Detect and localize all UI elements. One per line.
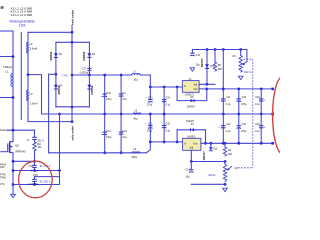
svg-text:620: 620	[228, 153, 233, 156]
wire R6 branch	[214, 50, 216, 63]
node dot bus lower diodes	[71, 106, 74, 109]
svg-text:1:8:8: 1:8:8	[18, 23, 25, 27]
capacitor C33 branch	[238, 114, 240, 143]
capacitor C15	[32, 165, 37, 167]
node dot primary tap 1	[12, 55, 15, 58]
capacitor C11 plates	[221, 99, 226, 101]
cut-off text top-left corner	[1, 6, 4, 9]
node dot rail D10	[206, 48, 209, 51]
wire snubber to source tap	[34, 151, 36, 162]
node dot C34 top	[163, 86, 166, 89]
capacitor C2 branch	[120, 75, 122, 114]
svg-text:FT40: FT40	[0, 176, 6, 179]
wire snubber mid	[34, 140, 36, 142]
diode D7	[191, 128, 195, 131]
node dot C36 bottom	[260, 142, 263, 145]
svg-text:1N5819: 1N5819	[49, 51, 53, 61]
inductor L6	[132, 152, 140, 153]
svg-text:1N4007: 1N4007	[187, 106, 196, 109]
svg-text:IRFP540: IRFP540	[15, 149, 26, 153]
svg-text:Adj: Adj	[190, 147, 194, 150]
wire primary top stub	[0, 30, 13, 32]
diode D1	[87, 53, 91, 57]
wire 7.4V bus	[72, 74, 132, 76]
node dot C30 top	[260, 88, 263, 91]
node dot C43 top	[103, 74, 106, 77]
svg-text:CP1: CP1	[148, 97, 153, 100]
node dot C2 bottom	[120, 113, 123, 116]
svg-text:270µ: 270µ	[241, 103, 247, 106]
node dot source tap upper	[12, 160, 15, 163]
potentiometer R2	[223, 162, 232, 182]
svg-text:10k lin: 10k lin	[244, 70, 252, 74]
svg-text:-Out: -Out	[193, 143, 198, 146]
svg-text:470µ: 470µ	[106, 136, 112, 139]
wire D5 loop	[177, 87, 207, 101]
capacitor C10 branch	[191, 50, 193, 53]
svg-text:1N5819: 1N5819	[90, 85, 94, 95]
wire top rail	[192, 49, 247, 51]
wire LM337 adj down	[190, 150, 192, 161]
svg-text:10k lin: 10k lin	[208, 173, 216, 177]
svg-text:Drain: Drain	[0, 128, 7, 132]
svg-text:C10: C10	[196, 54, 201, 57]
terminal square positive out	[271, 88, 274, 91]
wire C16 top stub	[34, 177, 36, 179]
ground symbol C10	[190, 68, 195, 71]
wire rectifier header	[56, 41, 90, 43]
svg-text:470µ: 470µ	[106, 98, 112, 101]
node dot rail R6	[214, 48, 217, 51]
node dot CP1 top	[149, 86, 152, 89]
wire out bus negative	[201, 142, 273, 144]
node dot C32 rail	[149, 113, 152, 116]
node dot C43 bottom	[103, 113, 106, 116]
annotation red ellipse snubber caps	[19, 161, 53, 198]
node dot out bus D7	[204, 142, 207, 145]
wire bottom left rail	[13, 184, 60, 186]
wire primary tap stub 1	[0, 56, 13, 58]
svg-text:FT4: FT4	[0, 183, 5, 186]
svg-text:C13: C13	[106, 130, 111, 133]
ground symbol R2	[223, 188, 228, 191]
svg-text:C36: C36	[255, 123, 260, 126]
wire rectifier left branch	[55, 42, 57, 107]
mechanical link dashed vertical	[252, 59, 254, 168]
svg-text:LM317L: LM317L	[185, 92, 195, 96]
wire C15 stub	[34, 161, 36, 165]
resistor R9 snubber	[33, 142, 36, 151]
inductor L2	[27, 42, 28, 53]
svg-text:C27: C27	[82, 68, 87, 71]
wire C15 bottom stub	[34, 168, 36, 171]
svg-text:0.1µ: 0.1µ	[165, 130, 170, 133]
wire ground mid rail	[42, 113, 273, 115]
capacitor C33 plates	[237, 126, 242, 129]
wire out bus positive	[199, 88, 273, 90]
capacitor C2 plates	[119, 94, 124, 96]
svg-text:1N4007: 1N4007	[200, 58, 204, 68]
diode D3	[87, 85, 91, 89]
svg-text:292 V: 292 V	[37, 139, 44, 143]
capacitor C19 branch	[120, 114, 122, 153]
capacitor C32 plates	[148, 126, 153, 129]
svg-text:1.9mH: 1.9mH	[30, 102, 38, 106]
capacitor C29 plates	[237, 99, 242, 102]
capacitor C30 branch	[260, 89, 262, 114]
capacitor C14 plates	[189, 170, 194, 173]
wire LM337 in bus	[150, 141, 182, 143]
node dot C12 bottom	[222, 142, 225, 145]
capacitor C12 branch	[222, 114, 224, 143]
svg-text:0.1µ: 0.1µ	[122, 98, 127, 101]
zener diode D12 branch	[210, 143, 212, 146]
resistor R4 branch	[224, 143, 226, 147]
svg-text:Out: Out	[194, 88, 198, 91]
wire D10 branch	[206, 50, 208, 85]
svg-text:10µ: 10µ	[133, 78, 138, 81]
wire secondary top	[28, 31, 72, 33]
node dot primary tap 2	[12, 96, 15, 99]
node dot C15 bottom	[33, 169, 36, 172]
node dot secondary bottom at bus	[71, 120, 74, 123]
resistor R4	[223, 147, 226, 156]
capacitor C43 branch	[104, 75, 106, 114]
svg-text:40µ: 40µ	[133, 118, 138, 121]
svg-text:0.1µ: 0.1µ	[226, 103, 231, 106]
svg-text:500µ: 500µ	[132, 156, 138, 159]
svg-text:270µ: 270µ	[241, 130, 247, 133]
svg-text:0.1µ: 0.1µ	[122, 136, 127, 139]
capacitor C36 branch	[260, 114, 262, 143]
capacitor CP1 plates	[148, 100, 153, 103]
node dot C35 top	[163, 141, 166, 144]
wire snubber branch top	[34, 130, 36, 137]
node dot left mid	[55, 73, 58, 76]
wire rectifier right branch	[88, 42, 90, 107]
annotation red ellipse output	[273, 77, 293, 154]
svg-text:f2: 292 V: f2: 292 V	[40, 179, 51, 183]
node dot source tap lower left	[12, 169, 15, 172]
capacitor snubber 1n	[32, 137, 37, 139]
svg-text:1N4007: 1N4007	[202, 151, 206, 161]
node dot adj D10	[205, 83, 208, 86]
node dot bus header	[71, 41, 74, 44]
capacitor C13 branch	[104, 114, 106, 153]
capacitor C34 branch	[163, 87, 165, 114]
mechanical link dashed top	[244, 58, 253, 60]
node dot D7 loop bottom	[176, 141, 179, 144]
svg-text:0.1µ: 0.1µ	[165, 104, 170, 107]
node dot snubber C15 top	[33, 160, 36, 163]
svg-text:C14: C14	[185, 168, 190, 171]
ground symbol mosfet	[11, 194, 16, 197]
potentiometer R1	[239, 50, 247, 73]
node dot snubber bottom	[33, 183, 36, 186]
terminal square negative out	[271, 142, 274, 145]
node dot C11 top	[222, 88, 225, 91]
wire minus raw drop	[48, 74, 50, 153]
wire D7 loop	[177, 130, 205, 144]
capacitor CP1 branch	[149, 87, 151, 99]
wire L7 to LM317 input	[140, 75, 182, 87]
capacitor C35 plates	[162, 126, 167, 128]
node dot out bus D5	[205, 88, 208, 91]
capacitor C43 plates	[102, 94, 107, 97]
svg-text:sek.seite: sek.seite	[71, 125, 75, 140]
capacitor C30 plates	[259, 99, 264, 101]
node dot C32 top	[149, 141, 152, 144]
wire Adj stub	[199, 83, 215, 85]
svg-text:10µ: 10µ	[185, 175, 190, 178]
svg-text:C35: C35	[165, 123, 170, 126]
wire mosfet source down	[12, 153, 14, 195]
node dot rail link	[222, 48, 225, 51]
wire ground drop column	[59, 114, 61, 185]
wire secondary bottom	[28, 121, 72, 123]
wire primary vertical	[12, 31, 14, 142]
node dot ground rail junction	[58, 113, 61, 116]
capacitor C10 plates	[190, 53, 195, 56]
wire link top rail to out bus	[222, 50, 224, 89]
capacitor C14 branch	[190, 162, 192, 170]
svg-text:C15: C15	[29, 164, 34, 168]
node dot tap lower right	[58, 169, 61, 172]
node dot bus 7.4V	[71, 74, 74, 77]
svg-text:0.1µ: 0.1µ	[226, 130, 231, 133]
node dot rail pot	[239, 48, 242, 51]
svg-text:10µ: 10µ	[196, 64, 201, 67]
wire primary tap stub 2	[0, 97, 13, 99]
diode D10	[205, 64, 209, 68]
svg-text:0.1µ: 0.1µ	[255, 130, 260, 133]
op-amp U1 LM317 box	[182, 81, 199, 93]
capacitor C35 branch	[163, 114, 165, 142]
svg-text:620: 620	[218, 68, 223, 71]
op-amp U2 LM337 box	[183, 138, 201, 150]
node dot C11 bottom	[222, 113, 225, 116]
inductor L1	[11, 74, 13, 87]
svg-text:C32: C32	[148, 123, 153, 126]
capacitor C13 plates	[102, 132, 107, 135]
node dot C19 bottom	[120, 151, 123, 154]
svg-text:C43: C43	[106, 92, 111, 95]
svg-text:C19: C19	[122, 130, 127, 133]
node dot C33 bottom	[237, 142, 240, 145]
diode D4	[54, 85, 58, 89]
wire adj rail	[191, 161, 225, 163]
wire center tap	[28, 75, 42, 114]
transistor M2	[1, 142, 13, 155]
svg-text:270µ: 270µ	[147, 104, 153, 107]
svg-text:C12: C12	[226, 123, 231, 126]
resistor R6	[213, 62, 216, 71]
svg-text:270µ: 270µ	[147, 130, 153, 133]
diode D5	[191, 99, 195, 102]
svg-text:0.0033µ: 0.0033µ	[80, 71, 89, 74]
node dot bus L2	[71, 31, 74, 34]
node dot C29 top	[237, 88, 240, 91]
svg-text:1N5819: 1N5819	[82, 51, 86, 61]
svg-text:K3 L2 L3 0.998: K3 L2 L3 0.998	[11, 13, 33, 17]
svg-text:D12: D12	[213, 148, 218, 151]
node dot right branch at 7.4V bus	[88, 74, 91, 77]
svg-text:0.1µ: 0.1µ	[255, 103, 260, 106]
svg-text:P40: P40	[0, 166, 5, 169]
svg-text:C34: C34	[165, 97, 170, 100]
svg-text:C29: C29	[242, 96, 247, 99]
svg-text:7.4V: 7.4V	[62, 73, 68, 77]
svg-text:M2: M2	[15, 144, 19, 148]
wire lower diode link	[56, 106, 90, 108]
wire C14 bottom to pot	[191, 183, 225, 185]
node dot source rail	[12, 183, 15, 186]
wire source tap upper	[13, 160, 35, 162]
capacitor C27 plates	[87, 68, 91, 70]
capacitor C19 plates	[119, 132, 124, 134]
wire bottom filter rail	[49, 142, 151, 153]
capacitor C32 branch	[149, 114, 151, 142]
node dot C35 rail	[163, 113, 166, 116]
inductor L3	[27, 90, 28, 101]
wire C16 top rail	[35, 176, 60, 178]
inductor L5	[133, 113, 141, 114]
terminal square ground out	[271, 113, 274, 116]
node dot C29 bottom	[237, 113, 240, 116]
wire secondary vertical	[27, 32, 29, 121]
node dot adj node	[190, 160, 193, 163]
node dot D5 loop top	[176, 86, 179, 89]
capacitor C34 plates	[162, 100, 167, 102]
capacitor C11 branch	[222, 89, 224, 114]
zener diode D12	[209, 147, 213, 151]
svg-text:0.08mH: 0.08mH	[3, 65, 12, 69]
wire vertical bus	[71, 26, 73, 122]
svg-text:C11: C11	[226, 96, 231, 99]
svg-text:sek.seite: sek.seite	[70, 9, 74, 25]
node dot C2 top	[120, 74, 123, 77]
node dot rail zener	[209, 142, 212, 145]
capacitor C16	[32, 179, 37, 181]
node dot C30 bottom	[260, 113, 263, 116]
node dot center tap	[27, 73, 30, 76]
wire source tap lower	[13, 170, 60, 172]
wire C16 bottom	[34, 182, 36, 185]
inductor L7	[132, 74, 141, 75]
node dot pot top	[224, 160, 227, 163]
transformer core	[20, 33, 22, 120]
capacitor C29 branch	[238, 89, 240, 114]
svg-text:Adj: Adj	[194, 84, 198, 87]
node dot C13 bottom	[103, 151, 106, 154]
svg-text:1.9mH: 1.9mH	[30, 47, 38, 51]
node dot rail R4	[224, 142, 227, 145]
svg-text:C33: C33	[242, 123, 247, 126]
diode D2	[54, 53, 58, 57]
ground symbol R1	[238, 76, 243, 79]
svg-text:C30: C30	[255, 96, 260, 99]
mechanical link dashed bottom	[238, 167, 253, 169]
svg-text:LM337L: LM337L	[187, 136, 196, 138]
wire left mid tap	[49, 73, 56, 75]
capacitor C12 plates	[221, 126, 226, 128]
node dot drain	[12, 129, 15, 132]
node dot pot bottom wire	[224, 183, 227, 186]
capacitor C36 plates	[259, 126, 264, 128]
wire drain node	[7, 129, 35, 131]
